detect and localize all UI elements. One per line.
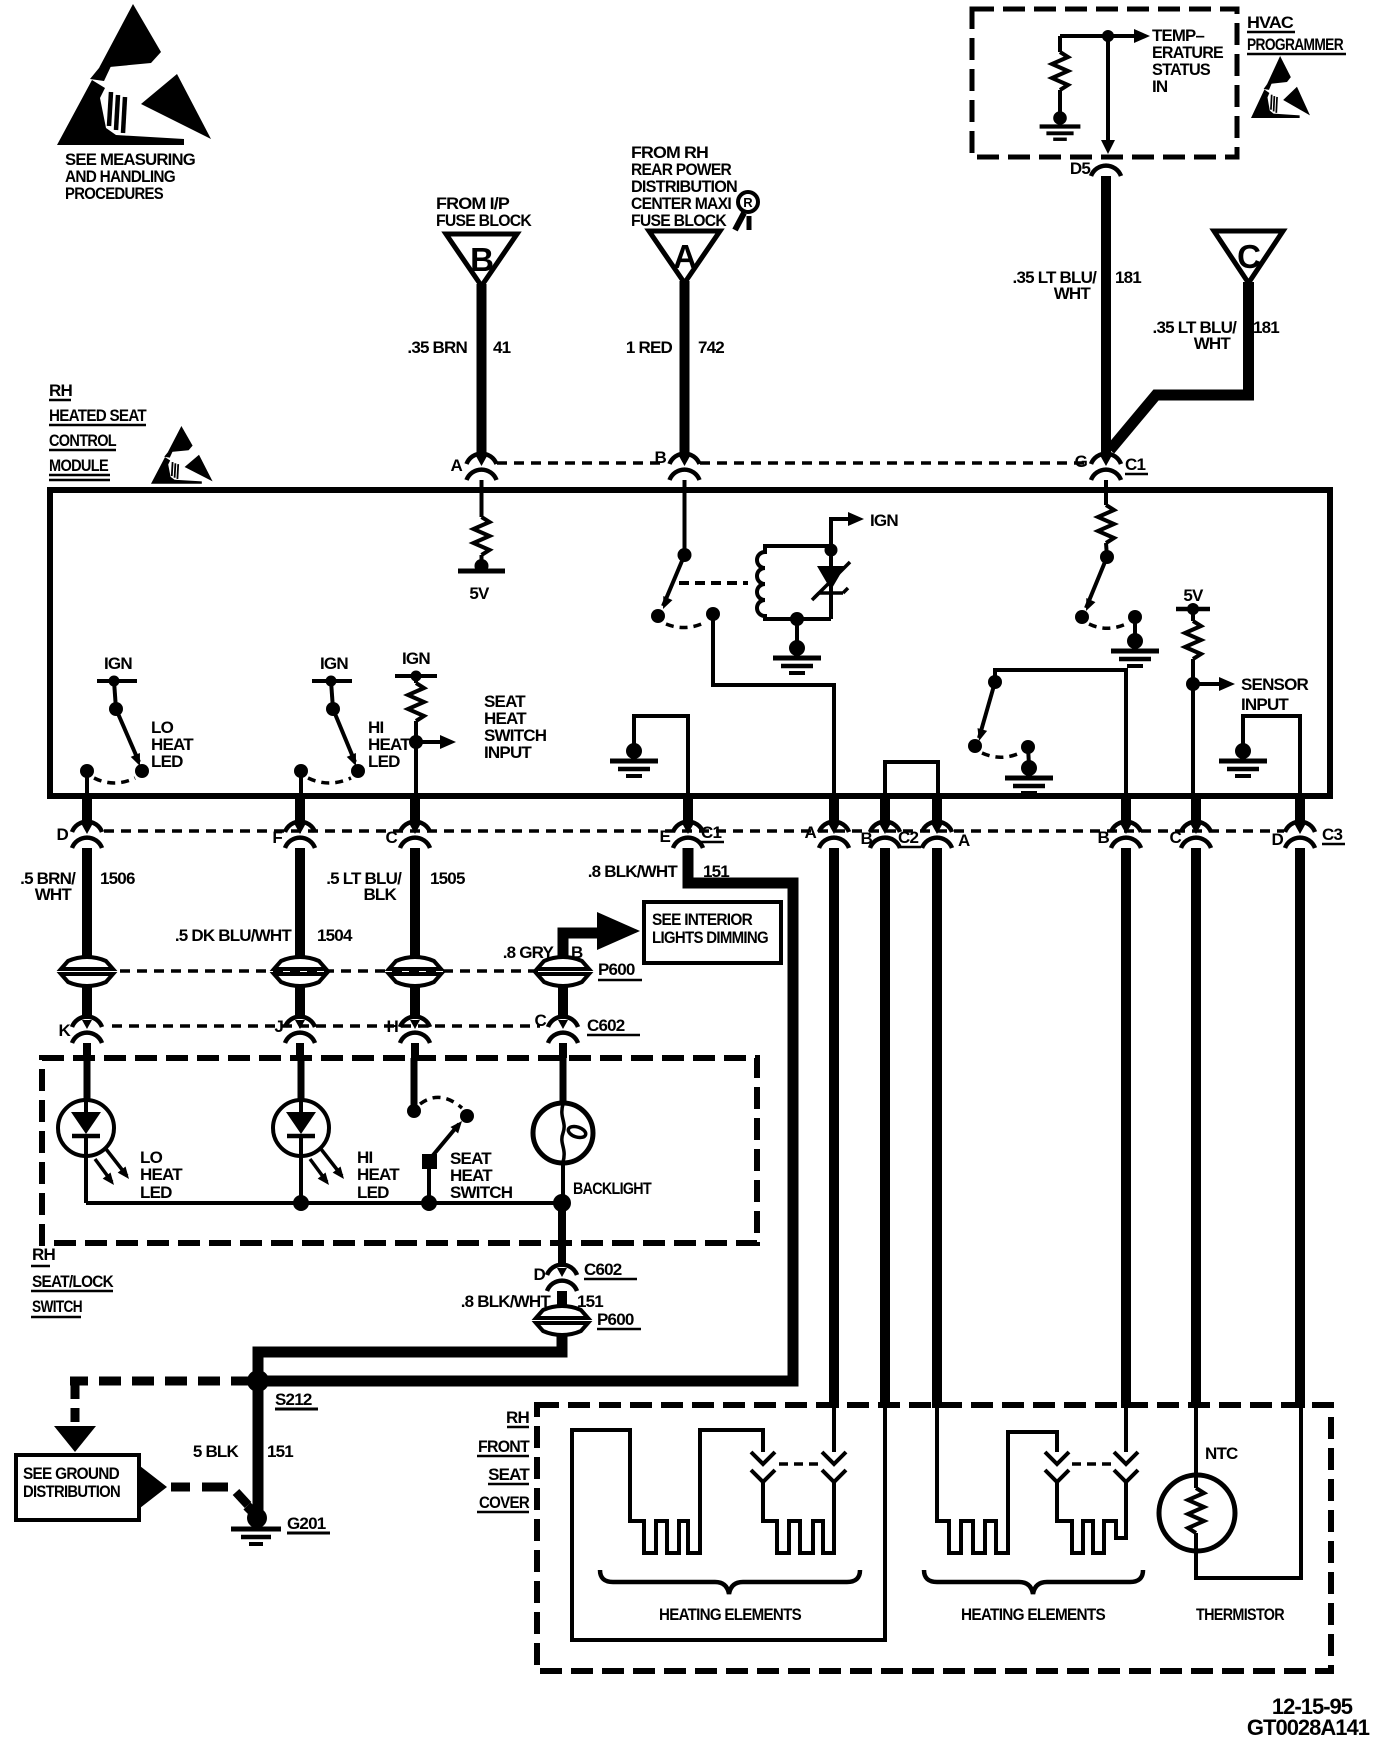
- svg-text:HEATING ELEMENTS: HEATING ELEMENTS: [961, 1605, 1105, 1624]
- svg-text:1504: 1504: [317, 926, 353, 945]
- svg-text:R: R: [743, 195, 753, 210]
- svg-text:C: C: [386, 828, 398, 847]
- svg-text:J: J: [274, 1017, 283, 1036]
- svg-text:181: 181: [1115, 268, 1141, 287]
- svg-text:C1: C1: [1125, 455, 1145, 474]
- svg-text:D: D: [534, 1265, 546, 1284]
- svg-text:C2: C2: [898, 828, 918, 847]
- svg-text:DISTRIBUTION: DISTRIBUTION: [23, 1482, 120, 1501]
- svg-text:G201: G201: [287, 1514, 326, 1533]
- svg-text:CONTROL: CONTROL: [49, 431, 116, 450]
- svg-text:BACKLIGHT: BACKLIGHT: [573, 1179, 652, 1198]
- svg-text:P600: P600: [597, 1310, 634, 1329]
- svg-text:NTC: NTC: [1205, 1444, 1238, 1463]
- svg-text:H: H: [387, 1017, 399, 1036]
- svg-text:F: F: [272, 828, 282, 847]
- svg-text:5V: 5V: [469, 584, 490, 603]
- svg-text:FUSE BLOCK: FUSE BLOCK: [631, 211, 727, 230]
- svg-text:INPUT: INPUT: [1241, 695, 1289, 714]
- svg-text:RH: RH: [32, 1245, 55, 1264]
- svg-text:742: 742: [698, 338, 724, 357]
- svg-text:C3: C3: [1322, 825, 1342, 844]
- svg-text:B: B: [861, 829, 873, 848]
- svg-text:HEATING ELEMENTS: HEATING ELEMENTS: [659, 1605, 801, 1624]
- svg-text:SEE GROUND: SEE GROUND: [23, 1464, 119, 1483]
- svg-text:COVER: COVER: [479, 1493, 529, 1512]
- svg-text:INPUT: INPUT: [484, 743, 532, 762]
- svg-text:G: G: [1075, 452, 1088, 471]
- svg-text:THERMISTOR: THERMISTOR: [1196, 1605, 1284, 1624]
- svg-text:FRONT: FRONT: [478, 1437, 530, 1456]
- svg-text:SWITCH: SWITCH: [32, 1297, 82, 1316]
- svg-text:A: A: [805, 823, 817, 842]
- svg-text:5V: 5V: [1183, 586, 1204, 605]
- svg-text:B: B: [470, 241, 494, 278]
- svg-text:A: A: [451, 456, 463, 475]
- svg-text:SEAT/LOCK: SEAT/LOCK: [32, 1272, 114, 1291]
- svg-text:SEE INTERIOR: SEE INTERIOR: [652, 910, 752, 929]
- svg-text:C602: C602: [584, 1260, 622, 1279]
- svg-text:1506: 1506: [100, 869, 135, 888]
- svg-text:D: D: [57, 825, 69, 844]
- svg-text:C: C: [1170, 828, 1182, 847]
- svg-text:A: A: [673, 238, 697, 275]
- svg-text:PROGRAMMER: PROGRAMMER: [1247, 35, 1343, 54]
- svg-text:IGN: IGN: [104, 654, 132, 673]
- svg-text:5 BLK: 5 BLK: [193, 1442, 240, 1461]
- svg-text:K: K: [59, 1021, 72, 1040]
- svg-text:IGN: IGN: [402, 649, 430, 668]
- svg-text:.5 DK BLU/WHT: .5 DK BLU/WHT: [175, 926, 293, 945]
- svg-text:LED: LED: [368, 752, 400, 771]
- svg-text:C602: C602: [587, 1016, 625, 1035]
- svg-text:FUSE BLOCK: FUSE BLOCK: [436, 211, 532, 230]
- svg-text:IN: IN: [1152, 77, 1168, 96]
- svg-text:S212: S212: [275, 1390, 312, 1409]
- svg-text:BLK: BLK: [363, 885, 397, 904]
- svg-text:WHT: WHT: [1194, 334, 1232, 353]
- svg-text:B: B: [1098, 828, 1110, 847]
- svg-text:1 RED: 1 RED: [626, 338, 673, 357]
- svg-text:D: D: [1272, 830, 1284, 849]
- svg-text:LED: LED: [140, 1183, 172, 1202]
- svg-text:WHT: WHT: [35, 885, 73, 904]
- svg-text:41: 41: [493, 338, 511, 357]
- svg-text:SWITCH: SWITCH: [450, 1183, 513, 1202]
- svg-text:SENSOR: SENSOR: [1241, 675, 1309, 694]
- svg-text:LED: LED: [357, 1183, 389, 1202]
- svg-text:B: B: [655, 448, 667, 467]
- svg-text:.8 BLK/WHT: .8 BLK/WHT: [461, 1292, 552, 1311]
- svg-text:.8 BLK/WHT: .8 BLK/WHT: [588, 862, 679, 881]
- svg-text:WHT: WHT: [1054, 284, 1092, 303]
- svg-text:PROCEDURES: PROCEDURES: [65, 184, 163, 203]
- svg-text:LED: LED: [151, 752, 183, 771]
- svg-text:HEATED SEAT: HEATED SEAT: [49, 406, 147, 425]
- svg-text:MODULE: MODULE: [49, 456, 108, 475]
- svg-text:HEAT: HEAT: [140, 1165, 183, 1184]
- svg-text:151: 151: [267, 1442, 293, 1461]
- svg-text:RH: RH: [506, 1408, 529, 1427]
- svg-text:C: C: [535, 1011, 547, 1030]
- svg-text:181: 181: [1253, 318, 1279, 337]
- svg-text:IGN: IGN: [320, 654, 348, 673]
- svg-text:C1: C1: [701, 823, 721, 842]
- svg-text:151: 151: [703, 862, 729, 881]
- svg-text:RH: RH: [49, 381, 72, 400]
- svg-text:.35 BRN: .35 BRN: [407, 338, 467, 357]
- svg-text:GT0028A141: GT0028A141: [1247, 1715, 1370, 1740]
- svg-text:HEAT: HEAT: [357, 1165, 400, 1184]
- svg-text:D5: D5: [1070, 159, 1090, 178]
- svg-text:1505: 1505: [430, 869, 465, 888]
- svg-text:P600: P600: [598, 960, 635, 979]
- svg-text:A: A: [958, 831, 970, 850]
- svg-text:IGN: IGN: [870, 511, 898, 530]
- svg-text:C: C: [1237, 238, 1261, 275]
- svg-text:E: E: [659, 827, 670, 846]
- svg-text:SEAT: SEAT: [488, 1465, 530, 1484]
- svg-text:LIGHTS DIMMING: LIGHTS DIMMING: [652, 928, 769, 947]
- svg-text:HVAC: HVAC: [1247, 13, 1294, 32]
